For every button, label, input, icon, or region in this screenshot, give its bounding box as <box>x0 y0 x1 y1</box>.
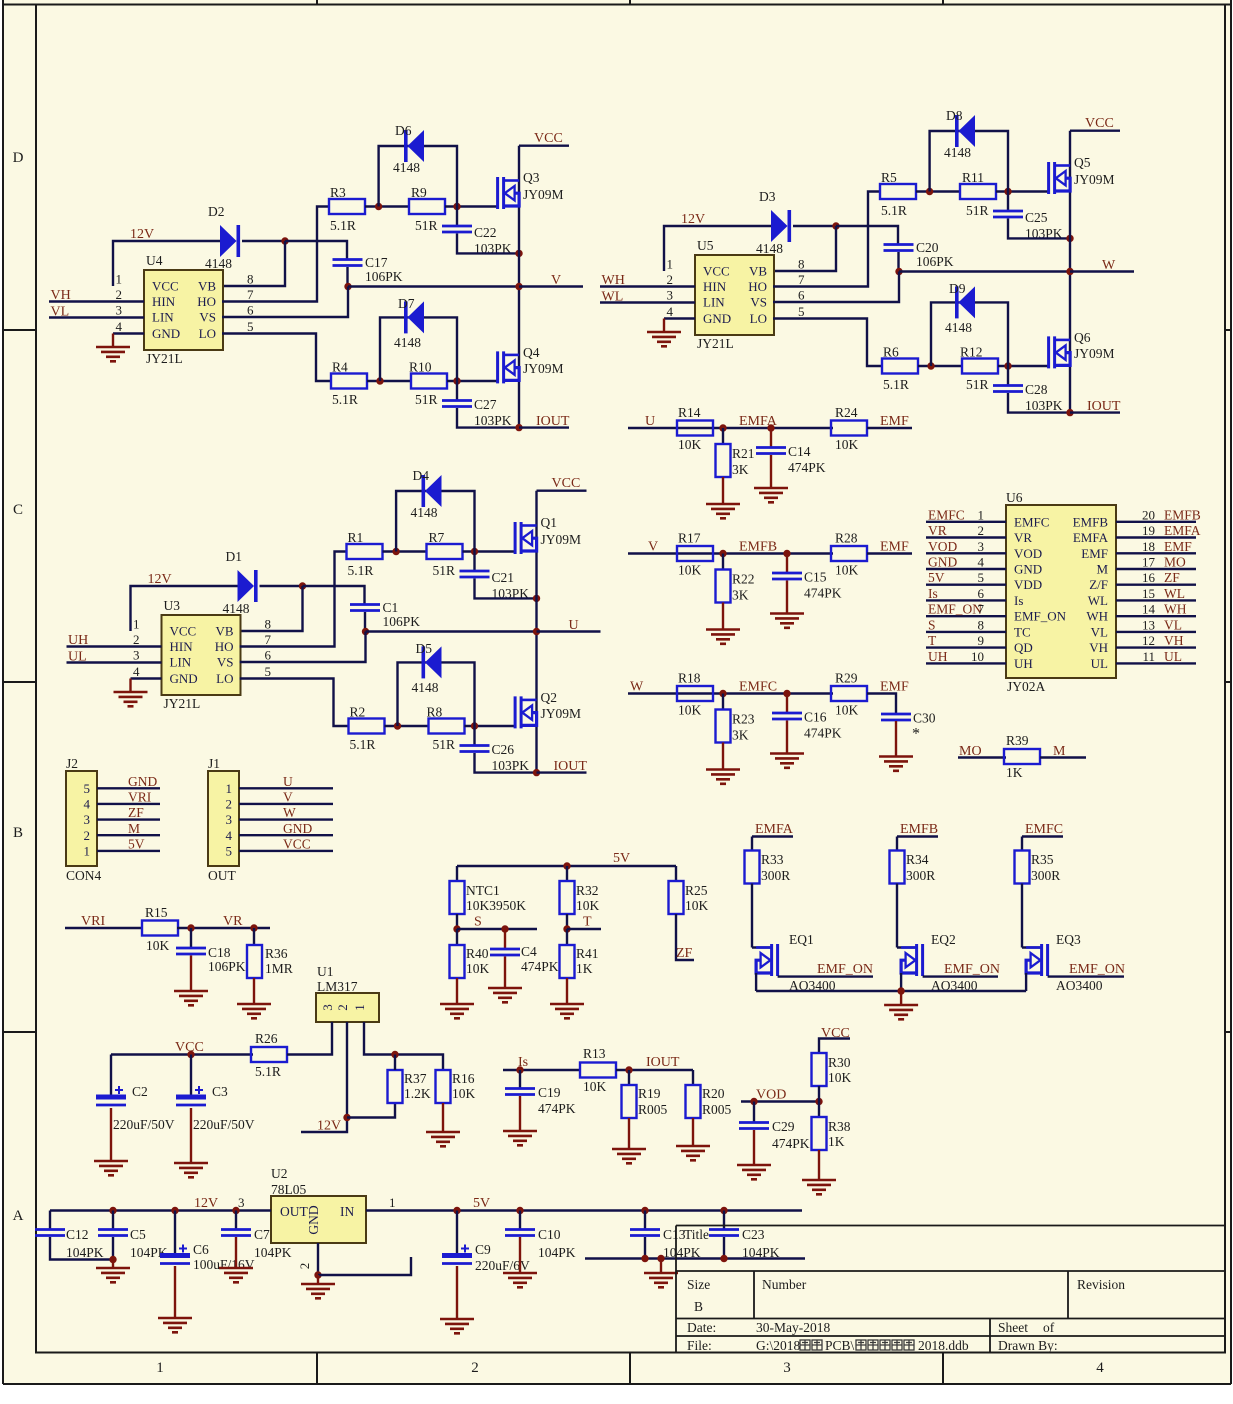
resistor R36 <box>247 945 262 978</box>
svg-text:R5: R5 <box>881 170 897 185</box>
transistor Q2 <box>515 696 537 728</box>
ground (R19) <box>612 1149 646 1163</box>
ground (R16) <box>426 1132 460 1146</box>
svg-text:R12: R12 <box>960 345 983 360</box>
wire EQ source rail <box>756 990 1026 992</box>
svg-text:10K: 10K <box>678 563 702 578</box>
svg-text:U1: U1 <box>317 964 334 979</box>
svg-text:VCC: VCC <box>534 131 563 146</box>
svg-text:2: 2 <box>335 1004 350 1011</box>
junction VCC/C3 <box>187 1051 194 1058</box>
wire to C10 <box>519 1211 521 1230</box>
ground (R40) <box>440 1004 474 1018</box>
svg-text:VDD: VDD <box>1014 577 1042 592</box>
svg-text:Q5: Q5 <box>1074 155 1091 170</box>
wire EQ1 drain stub <box>752 946 772 948</box>
svg-text:EMF: EMF <box>1081 546 1108 561</box>
svg-text:Number: Number <box>762 1277 807 1292</box>
svg-text:GND: GND <box>703 311 731 326</box>
wire J2 pin 4 (VRI) <box>97 803 160 805</box>
capacitor C2 <box>96 1086 126 1105</box>
wire R11 to Q5 gate <box>996 190 1049 192</box>
svg-text:LIN: LIN <box>703 295 725 310</box>
resistor R6 <box>882 359 918 374</box>
resistor R41 <box>560 945 575 978</box>
svg-text:UH: UH <box>1014 656 1033 671</box>
wire C25 top <box>1007 192 1009 212</box>
svg-text:R11: R11 <box>962 170 984 185</box>
resistor R8 <box>429 719 465 734</box>
svg-text:EQ3: EQ3 <box>1056 932 1081 947</box>
svg-text:D8: D8 <box>946 108 963 123</box>
svg-text:EMFA: EMFA <box>1073 530 1109 545</box>
diode D7 <box>404 301 424 333</box>
capacitor C7 <box>221 1230 251 1236</box>
ground (R23) <box>706 770 740 784</box>
junction EQ rail ground <box>897 987 904 994</box>
svg-text:R2: R2 <box>350 705 366 720</box>
wire to C16 <box>786 694 788 713</box>
svg-text:R21: R21 <box>732 446 755 461</box>
svg-text:JY09M: JY09M <box>1074 172 1115 187</box>
svg-text:Q4: Q4 <box>523 345 540 360</box>
wire VL to pin3 <box>49 316 144 318</box>
junction 5V/R32 <box>563 862 570 869</box>
wire R23 to ground <box>722 743 724 770</box>
svg-text:1: 1 <box>389 1195 396 1210</box>
junction R6/D9 <box>927 362 934 369</box>
wire EQ3 source to rail <box>1025 973 1027 991</box>
svg-text:CON4: CON4 <box>66 868 102 883</box>
IC U5 JY21L <box>695 255 774 335</box>
capacitor C29 <box>739 1123 769 1129</box>
svg-text:1: 1 <box>84 843 91 858</box>
wire J1 pin 3 (W) <box>239 818 333 820</box>
svg-text:5.1R: 5.1R <box>255 1064 281 1079</box>
resistor R29 <box>831 686 867 701</box>
svg-text:UH: UH <box>928 649 948 664</box>
wire U6 pin 16 (ZF) <box>1116 584 1196 586</box>
junction R30/R38 <box>815 1098 822 1105</box>
diode D2 <box>220 225 240 257</box>
svg-text:QD: QD <box>1014 640 1033 655</box>
svg-text:R005: R005 <box>702 1102 732 1117</box>
capacitor C25 <box>993 211 1023 217</box>
ground (R21) <box>706 504 740 518</box>
svg-text:474PK: 474PK <box>538 1101 576 1116</box>
svg-text:474PK: 474PK <box>521 959 559 974</box>
wire EQ1 gate EMF_ON <box>778 975 873 977</box>
resistor R26 <box>251 1047 287 1062</box>
svg-text:JY21L: JY21L <box>146 351 183 366</box>
svg-text:HO: HO <box>215 639 234 654</box>
wire EQ3 gate EMF_ON <box>1048 975 1124 977</box>
svg-text:3K: 3K <box>732 462 749 477</box>
svg-text:EMF: EMF <box>880 540 909 555</box>
svg-text:4: 4 <box>226 828 233 843</box>
ground (bottom rail) <box>644 1273 678 1287</box>
svg-text:AO3400: AO3400 <box>1056 978 1103 993</box>
svg-text:14: 14 <box>1142 602 1156 617</box>
svg-text:EMF_ON: EMF_ON <box>1014 609 1067 624</box>
svg-text:D: D <box>13 150 24 166</box>
svg-text:13: 13 <box>1142 617 1155 632</box>
junction C21/phase <box>533 595 540 602</box>
junction EMFC/C16 <box>783 690 790 697</box>
wire MO to R39 <box>958 756 1006 758</box>
wire U1 pin1 to R16 <box>364 1022 443 1070</box>
wire C17 bottom <box>346 267 348 287</box>
wire pin7 HO to R3 <box>222 207 329 302</box>
svg-text:U: U <box>283 774 293 789</box>
svg-text:JY09M: JY09M <box>523 361 564 376</box>
svg-text:5.1R: 5.1R <box>330 218 356 233</box>
wire EQ2 gate EMF_ON <box>923 975 998 977</box>
wire EQ1 source to rail <box>755 973 757 991</box>
svg-text:EMFA: EMFA <box>755 822 794 837</box>
title block <box>676 1226 1225 1353</box>
svg-text:JY21L: JY21L <box>164 696 201 711</box>
svg-text:R005: R005 <box>638 1102 668 1117</box>
wire IOUT (U5) <box>1070 411 1120 413</box>
wire 5V rail (U2 right) <box>366 1209 802 1211</box>
svg-text:U: U <box>645 414 655 429</box>
svg-text:VS: VS <box>217 655 234 670</box>
svg-text:8: 8 <box>265 617 272 632</box>
transistor Q3 <box>498 177 519 209</box>
svg-text:EMF_ON: EMF_ON <box>817 962 873 977</box>
svg-text:C30: C30 <box>913 711 936 726</box>
wire R38 to ground <box>818 1150 820 1180</box>
svg-text:R34: R34 <box>906 852 929 867</box>
wire C5 bottom <box>112 1237 114 1260</box>
resistor R13 <box>580 1063 616 1078</box>
svg-text:7: 7 <box>798 272 805 287</box>
svg-text:LM317: LM317 <box>317 979 358 994</box>
svg-text:IN: IN <box>340 1204 354 1219</box>
capacitor C5 <box>98 1230 128 1236</box>
svg-text:51R: 51R <box>415 218 438 233</box>
resistor R2 <box>349 719 385 734</box>
wire R9 to Q3 gate <box>445 205 498 207</box>
wire WH to pin2 <box>600 285 695 287</box>
svg-text:4: 4 <box>978 555 985 570</box>
wire C18 to ground <box>190 956 192 992</box>
wire to C7 <box>235 1211 237 1230</box>
wire VCC (Q3) <box>519 144 569 146</box>
svg-text:474PK: 474PK <box>804 726 842 741</box>
wire U6 pin 3 (VOD) <box>926 552 1006 554</box>
wire D6 loop <box>379 146 457 207</box>
junction R9/C22 <box>453 203 460 210</box>
wire VRI to R15 <box>65 927 143 929</box>
svg-text:C22: C22 <box>474 225 497 240</box>
resistor R5 <box>880 184 916 199</box>
svg-text:VB: VB <box>749 264 767 279</box>
wire C22 top <box>456 207 458 227</box>
svg-text:R16: R16 <box>452 1071 475 1086</box>
svg-text:MO: MO <box>1164 555 1186 570</box>
junction phase U <box>533 628 540 635</box>
svg-text:10K: 10K <box>146 938 170 953</box>
svg-text:ZF: ZF <box>676 946 693 961</box>
junction Is/C19 <box>516 1066 523 1073</box>
svg-text:EMF_ON: EMF_ON <box>1069 962 1125 977</box>
wire C26 bottom <box>475 753 537 773</box>
wire to C19 <box>519 1070 521 1088</box>
junction IOUT <box>515 424 522 431</box>
junction VR/R36 <box>250 924 257 931</box>
svg-text:Q1: Q1 <box>541 515 558 530</box>
svg-text:5.1R: 5.1R <box>881 203 907 218</box>
svg-text:300R: 300R <box>906 868 935 883</box>
wire UL to pin3 <box>67 661 162 663</box>
junction R7/C21 <box>471 548 478 555</box>
diode D6 <box>404 130 424 162</box>
svg-text:C3: C3 <box>212 1084 228 1099</box>
svg-text:5V: 5V <box>473 1196 490 1211</box>
wire C29 to ground <box>753 1130 755 1165</box>
svg-text:19: 19 <box>1142 523 1155 538</box>
svg-text:GND: GND <box>306 1205 321 1234</box>
svg-text:2: 2 <box>471 1360 479 1376</box>
svg-text:10K: 10K <box>678 703 702 718</box>
junction phase V <box>515 283 522 290</box>
wire S row <box>457 928 537 930</box>
svg-text:4148: 4148 <box>205 256 232 271</box>
ground (C2) <box>94 1161 128 1175</box>
svg-text:12V: 12V <box>681 212 705 227</box>
svg-text:W: W <box>283 805 296 820</box>
wire R20 to ground <box>692 1118 694 1146</box>
svg-text:5.1R: 5.1R <box>332 392 358 407</box>
ground (U3 pin4) <box>114 692 148 706</box>
resistor R38 <box>812 1117 827 1150</box>
svg-text:4148: 4148 <box>223 601 250 616</box>
svg-text:Title: Title <box>684 1227 709 1242</box>
svg-text:4: 4 <box>667 304 674 319</box>
svg-text:HIN: HIN <box>170 639 194 654</box>
svg-text:2: 2 <box>116 287 123 302</box>
wire to R40 <box>456 929 458 945</box>
junction IOUT/R19 <box>625 1066 632 1073</box>
junction gnd rail C23 <box>720 1255 727 1262</box>
svg-text:VS: VS <box>750 295 767 310</box>
svg-text:12: 12 <box>1142 633 1155 648</box>
svg-text:VB: VB <box>198 279 216 294</box>
svg-text:R6: R6 <box>883 345 899 360</box>
svg-text:VR: VR <box>1014 530 1032 545</box>
resistor R16 <box>436 1070 451 1103</box>
ground (C15) <box>770 614 804 628</box>
diode D3 <box>771 210 791 242</box>
svg-text:HIN: HIN <box>152 294 176 309</box>
svg-text:EMFC: EMFC <box>1025 822 1063 837</box>
svg-text:S: S <box>928 617 936 632</box>
wire to C17 <box>285 241 347 260</box>
wire J2 pin 5 (GND) <box>97 787 160 789</box>
wire R37 top stub <box>394 1055 396 1071</box>
svg-text:C9: C9 <box>475 1242 491 1257</box>
junction EMFA/C14 <box>767 424 774 431</box>
wire ground rail (bottom) <box>585 1257 805 1259</box>
svg-text:4148: 4148 <box>393 160 420 175</box>
svg-text:GND: GND <box>152 326 180 341</box>
svg-text:10K: 10K <box>835 703 859 718</box>
svg-text:R3: R3 <box>330 185 346 200</box>
wire U6 pin 18 (EMF) <box>1116 552 1196 554</box>
svg-text:3K: 3K <box>732 728 749 743</box>
svg-text:1: 1 <box>978 507 985 522</box>
wire C26 top <box>473 726 475 746</box>
svg-text:6: 6 <box>265 648 272 663</box>
wire W row <box>628 692 833 694</box>
svg-text:WL: WL <box>1164 586 1185 601</box>
wire C15 to ground <box>786 581 788 614</box>
wire pin6 VS (U3) <box>240 632 366 663</box>
svg-text:*: * <box>912 726 920 743</box>
svg-text:Is: Is <box>928 586 938 601</box>
svg-text:104PK: 104PK <box>254 1245 292 1260</box>
svg-text:R38: R38 <box>828 1119 851 1134</box>
svg-text:W: W <box>630 680 644 695</box>
svg-text:Size: Size <box>687 1277 710 1292</box>
svg-text:C25: C25 <box>1025 210 1048 225</box>
svg-text:106PK: 106PK <box>383 614 421 629</box>
junction R2/D5 <box>394 722 401 729</box>
svg-text:300R: 300R <box>1031 868 1060 883</box>
wire U6 pin 20 (EMFB) <box>1116 521 1196 523</box>
svg-text:10K: 10K <box>685 898 709 913</box>
wire J2 pin 3 (ZF) <box>97 818 160 820</box>
svg-text:EQ1: EQ1 <box>789 932 814 947</box>
svg-text:4: 4 <box>1096 1360 1104 1376</box>
wire C7 to ground <box>235 1237 237 1268</box>
wire J1 pin 5 (VCC) <box>239 850 333 852</box>
svg-text:5V: 5V <box>128 836 145 851</box>
wire EMF to C30 <box>867 694 896 715</box>
wire R25 to ZF <box>676 914 694 960</box>
svg-text:VRI: VRI <box>81 914 105 929</box>
wire VCC row (U1) <box>111 1053 253 1055</box>
svg-text:10K: 10K <box>452 1086 476 1101</box>
svg-text:20: 20 <box>1142 507 1155 522</box>
svg-text:UL: UL <box>1091 656 1108 671</box>
wire 5V to NTC1 <box>456 866 458 881</box>
svg-text:220uF/6V: 220uF/6V <box>475 1258 530 1273</box>
svg-text:3: 3 <box>320 1004 335 1011</box>
resistor R19 <box>622 1085 637 1118</box>
svg-text:15: 15 <box>1142 586 1155 601</box>
svg-text:VR: VR <box>928 523 947 538</box>
wire EMFA to R33 <box>751 837 753 852</box>
junction rail/C10 <box>516 1207 523 1214</box>
wire R3-R9 <box>365 205 409 207</box>
resistor R15 <box>142 921 178 936</box>
wire pin6 VS (U5) <box>773 272 899 303</box>
svg-text:R18: R18 <box>678 671 701 686</box>
wire R12 to Q6 gate <box>998 365 1049 367</box>
ground (C4) <box>488 988 522 1002</box>
wire EMFB stub <box>897 835 938 837</box>
svg-text:D7: D7 <box>398 296 415 311</box>
wire U6 pin 5 (5V) <box>926 584 1006 586</box>
svg-text:OUT: OUT <box>208 868 236 883</box>
wire pin7 HO to R1 <box>240 552 347 647</box>
wire pin8 VB (U3) <box>240 586 303 631</box>
wire R32 to T node <box>566 914 568 929</box>
wire to C18 <box>190 928 192 948</box>
svg-text:11: 11 <box>1142 649 1155 664</box>
svg-text:JY09M: JY09M <box>523 187 564 202</box>
wire D4 loop <box>396 491 474 552</box>
wire U6 pin 4 (GND) <box>926 568 1006 570</box>
svg-text:NTC1: NTC1 <box>466 883 500 898</box>
resistor R4 <box>331 374 367 389</box>
junction EMFC/R23 <box>719 690 726 697</box>
wire to C13 <box>644 1211 646 1230</box>
wire R7 to Q1 gate <box>463 550 516 552</box>
wire IOUT row <box>616 1069 693 1071</box>
wire to ground (C5) <box>112 1260 114 1269</box>
svg-text:104PK: 104PK <box>66 1245 104 1260</box>
wire phase node U <box>366 630 537 632</box>
wire C22 bottom <box>457 234 519 254</box>
svg-text:D9: D9 <box>949 281 966 296</box>
svg-text:R9: R9 <box>411 185 427 200</box>
svg-text:C: C <box>13 502 23 518</box>
ground (C29) <box>737 1165 771 1179</box>
svg-text:R30: R30 <box>828 1055 851 1070</box>
wire 5V to R25 <box>675 866 677 881</box>
junction R10/C27 <box>453 377 460 384</box>
svg-text:EMFB: EMFB <box>1164 507 1201 522</box>
wire to C29 <box>753 1102 755 1123</box>
svg-text:VCC: VCC <box>703 264 730 279</box>
wire VOD row <box>741 1100 819 1102</box>
svg-text:VR: VR <box>223 914 243 929</box>
wire R10 to Q4 gate <box>447 380 498 382</box>
resistor R33 <box>745 851 760 884</box>
resistor R28 <box>831 546 867 561</box>
wire R4-R10 <box>367 380 411 382</box>
svg-text:8: 8 <box>798 257 805 272</box>
wire J2 pin 2 (M) <box>97 834 160 836</box>
wire Q5/Q6 drain-source column <box>1069 131 1071 413</box>
svg-text:104PK: 104PK <box>538 1245 576 1260</box>
wire D7 loop <box>380 317 457 381</box>
svg-text:R13: R13 <box>583 1046 606 1061</box>
wire to R38 <box>818 1102 820 1118</box>
resistor R11 <box>960 184 996 199</box>
svg-text:51R: 51R <box>966 203 989 218</box>
transistor Q4 <box>498 351 519 383</box>
svg-text:C16: C16 <box>804 710 827 725</box>
IC U4 JY21L <box>144 270 223 350</box>
connector J2 CON4 <box>66 771 97 866</box>
svg-text:V: V <box>648 540 658 555</box>
svg-text:U4: U4 <box>146 253 163 268</box>
svg-text:C14: C14 <box>788 444 811 459</box>
svg-text:VOD: VOD <box>1014 546 1042 561</box>
wire C9 to ground <box>456 1266 458 1319</box>
capacitor C27 <box>442 401 472 407</box>
svg-text:UL: UL <box>1164 649 1182 664</box>
wire R26 to U1 pin3 <box>287 1022 332 1055</box>
wire C16 to ground <box>786 721 788 754</box>
svg-text:EMFB: EMFB <box>739 540 777 555</box>
wire R19 to ground <box>628 1118 630 1149</box>
